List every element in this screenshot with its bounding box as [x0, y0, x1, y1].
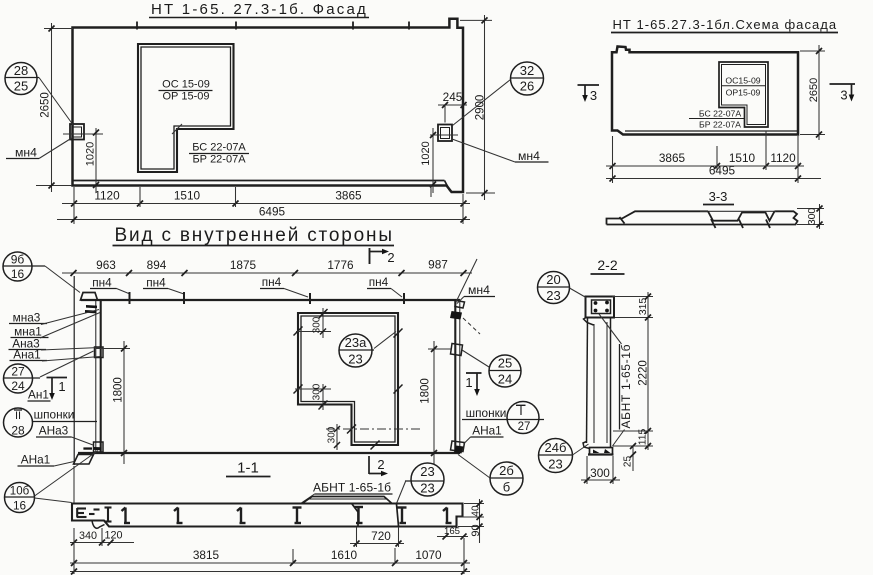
svg-text:Вид с внутренней стороны: Вид с внутренней стороны	[115, 225, 393, 246]
svg-text:2: 2	[377, 457, 384, 472]
inner panel bottom edge	[78, 452, 460, 454]
svg-text:1070: 1070	[415, 548, 442, 562]
svg-text:Ан1: Ан1	[28, 388, 49, 402]
svg-text:300: 300	[807, 208, 818, 226]
svg-text:963: 963	[96, 258, 116, 272]
section mark 3 right	[830, 83, 856, 85]
svg-text:1020: 1020	[85, 142, 97, 166]
svg-text:24: 24	[11, 379, 25, 393]
right edge tab 1	[455, 301, 465, 309]
svg-text:БР 22-07А: БР 22-07А	[699, 120, 741, 130]
inner opening outer	[298, 313, 398, 445]
dim 300 of 3-3	[819, 204, 821, 229]
section mark 3 left	[578, 84, 600, 86]
svg-text:23: 23	[348, 352, 362, 367]
svg-text:1020: 1020	[420, 141, 432, 165]
callout circle 20/23	[538, 272, 570, 304]
svg-text:20: 20	[546, 272, 560, 287]
tick at opening step	[172, 124, 182, 134]
rebar marks	[122, 507, 452, 523]
svg-text:25: 25	[623, 456, 634, 468]
inner panel right edge	[459, 300, 461, 453]
svg-text:3: 3	[840, 88, 847, 103]
svg-text:1800: 1800	[113, 377, 125, 403]
facade opening outer	[138, 44, 234, 172]
svg-text:АНа3: АНа3	[39, 424, 69, 438]
callout circle 9б/16	[3, 252, 32, 281]
right edge tab 4	[451, 441, 465, 452]
inner opening inner	[301, 316, 395, 442]
svg-text:2: 2	[387, 250, 394, 265]
section 1-1 profile	[72, 504, 463, 527]
svg-text:23а: 23а	[345, 335, 367, 350]
svg-text:шпонки: шпонки	[466, 406, 507, 420]
callout circle 27/24	[4, 364, 33, 393]
svg-text:Ана1: Ана1	[13, 348, 41, 362]
svg-text:мн4: мн4	[15, 146, 37, 160]
svg-text:300: 300	[590, 466, 610, 480]
svg-text:23: 23	[420, 481, 434, 496]
bottom-left corner plate	[74, 455, 94, 465]
svg-text:мна3: мна3	[13, 311, 41, 325]
svg-text:2220: 2220	[637, 360, 649, 386]
svg-text:987: 987	[428, 258, 448, 272]
svg-text:23: 23	[420, 464, 434, 479]
svg-text:9б: 9б	[11, 253, 25, 267]
svg-text:1510: 1510	[174, 189, 201, 203]
svg-text:2-2: 2-2	[597, 257, 617, 273]
svg-text:1: 1	[58, 379, 65, 394]
callout circle 28/25	[5, 63, 37, 95]
svg-text:мн4: мн4	[518, 149, 540, 163]
callout circle 10б/16	[5, 483, 35, 513]
dim 40 / 90	[479, 499, 481, 543]
svg-text:24б: 24б	[545, 440, 567, 455]
left middle tab	[95, 347, 104, 358]
dim 2900 right	[484, 15, 486, 200]
svg-text:894: 894	[147, 258, 167, 272]
edge ticks пн	[129, 292, 131, 304]
dim 1800 left	[123, 341, 125, 464]
svg-text:1120: 1120	[94, 189, 120, 203]
svg-text:пн4: пн4	[92, 276, 112, 290]
svg-text:ОС15-09: ОС15-09	[725, 76, 760, 86]
section 3-3 profile	[607, 211, 798, 224]
dim 165	[437, 536, 468, 538]
svg-text:БС 22-07А: БС 22-07А	[699, 109, 742, 119]
top rib box	[586, 297, 615, 318]
bottom rib box	[590, 448, 613, 455]
svg-text:24: 24	[498, 372, 512, 387]
svg-text:300: 300	[312, 383, 323, 400]
facade opening inner	[141, 47, 231, 169]
dim 300 bottom	[336, 424, 338, 450]
opening ticks	[319, 309, 328, 319]
svg-text:6495: 6495	[709, 164, 736, 178]
inner panel left edge	[95, 300, 97, 453]
svg-text:3815: 3815	[193, 548, 220, 562]
svg-text:3-3: 3-3	[709, 189, 728, 204]
ticks on facade top edge	[136, 22, 138, 30]
dim 3815 1610 1070	[70, 562, 470, 564]
svg-text:32: 32	[520, 63, 534, 78]
facade panel outline	[73, 19, 464, 192]
svg-text:1776: 1776	[327, 258, 354, 272]
svg-text:16: 16	[11, 267, 25, 281]
svg-text:40: 40	[471, 505, 482, 517]
svg-text:245: 245	[443, 90, 463, 104]
svg-text:2б: 2б	[499, 463, 514, 478]
dim 340 120	[70, 542, 134, 544]
svg-text:мн4: мн4	[468, 283, 490, 297]
svg-text:шпонки: шпонки	[34, 408, 75, 422]
extension lines	[612, 136, 614, 183]
callout circle II/28	[4, 408, 33, 437]
dim 300 middle	[322, 384, 324, 410]
svg-text:6495: 6495	[259, 205, 286, 219]
dim line 3865 1510 1120	[606, 165, 804, 167]
body edges	[587, 318, 588, 444]
schema opening outer	[719, 62, 768, 127]
svg-text:I: I	[519, 404, 522, 418]
svg-text:БР 22-07А: БР 22-07А	[192, 154, 246, 166]
callout circle 25/24	[489, 355, 521, 387]
svg-text:ОС 15-09: ОС 15-09	[162, 79, 210, 91]
svg-text:1610: 1610	[331, 548, 358, 562]
left bottom tab	[94, 442, 104, 452]
svg-text:АНа1: АНа1	[472, 424, 502, 438]
top-left tab	[81, 293, 98, 301]
svg-text:27: 27	[518, 421, 531, 433]
dim line 1120 1510 3865	[62, 203, 470, 205]
svg-text:АНа1: АНа1	[21, 453, 51, 467]
section mark 2 bottom	[368, 456, 370, 474]
svg-text:1-1: 1-1	[237, 460, 259, 477]
svg-text:1: 1	[465, 375, 472, 390]
dim 300 top	[322, 308, 324, 338]
raised key on top	[302, 497, 392, 504]
svg-text:3: 3	[590, 88, 597, 103]
right edge marker мн4	[438, 125, 452, 142]
svg-text:3865: 3865	[659, 151, 686, 165]
dim 300 bottom	[581, 479, 620, 481]
svg-text:АБНТ 1-65-1б: АБНТ 1-65-1б	[619, 344, 633, 428]
section mark 2 top	[369, 248, 371, 264]
left end anchor detail	[92, 521, 105, 529]
bottom-right corner anchor	[454, 446, 464, 454]
FACADE PART	[5, 1, 549, 224]
top dim line 963 894 1875 1776 987	[62, 272, 472, 274]
callout circle 32/26	[511, 62, 544, 95]
svg-text:10б: 10б	[10, 486, 30, 498]
svg-text:23: 23	[548, 457, 562, 472]
extension lines	[73, 187, 75, 224]
svg-text:16: 16	[13, 499, 27, 513]
svg-text:2650: 2650	[40, 92, 52, 118]
svg-text:ОР15-09: ОР15-09	[726, 88, 761, 98]
svg-text:25: 25	[498, 356, 512, 371]
svg-text:120: 120	[104, 530, 122, 542]
SCHEMA PART	[578, 17, 856, 229]
svg-text:1875: 1875	[230, 258, 257, 272]
callout circle 23а/23	[339, 334, 372, 367]
dim 1800 right	[433, 341, 435, 464]
dim 315 2220 115	[647, 292, 649, 450]
dim 2650 right	[818, 45, 820, 140]
recess lines	[352, 504, 358, 512]
dim 245	[438, 104, 467, 106]
dim 25	[632, 446, 634, 471]
section mark 1 right	[466, 372, 482, 374]
schema bottom flange line	[625, 130, 798, 132]
svg-text:26: 26	[520, 79, 534, 94]
schema panel outline	[612, 47, 798, 135]
dim line 6495	[606, 178, 821, 180]
svg-text:пн4: пн4	[369, 275, 389, 289]
left anchor marks	[86, 305, 97, 308]
extension lines	[73, 528, 75, 574]
left edge marker мн4	[70, 124, 84, 140]
svg-text:2900: 2900	[475, 95, 487, 121]
svg-text:28: 28	[14, 63, 28, 78]
schema opening inner	[722, 65, 766, 125]
left bottom anchor	[83, 447, 92, 449]
svg-text:б: б	[503, 480, 510, 495]
dim 1020 right	[432, 128, 434, 193]
dim 2650 left	[51, 23, 53, 192]
svg-text:пн4: пн4	[146, 276, 166, 290]
SECTION 1-1 PART	[70, 455, 523, 575]
bottom-left lip	[583, 442, 590, 449]
svg-text:2650: 2650	[808, 78, 820, 102]
dim 1020 left	[95, 128, 97, 193]
section mark 1 left	[47, 377, 68, 379]
svg-text:НТ 1-65. 27.3-1б. Фасад: НТ 1-65. 27.3-1б. Фасад	[151, 1, 367, 18]
SECTION 2-2 PART	[538, 257, 654, 484]
facade bottom flange line	[73, 180, 445, 182]
svg-text:90: 90	[470, 524, 482, 536]
svg-text:25: 25	[14, 79, 28, 94]
INNER VIEW PART	[3, 225, 544, 513]
svg-text:1120: 1120	[770, 151, 796, 165]
right edge tab 3	[451, 344, 463, 356]
callout circle 24б/23	[539, 439, 573, 473]
svg-text:720: 720	[371, 529, 391, 543]
right edge anchor 2	[450, 311, 462, 320]
dashed leader	[463, 318, 480, 334]
svg-text:115: 115	[638, 429, 649, 446]
callout circle 2б/б	[490, 462, 523, 495]
svg-text:3865: 3865	[335, 189, 362, 203]
svg-text:315: 315	[638, 298, 649, 316]
svg-text:165: 165	[444, 526, 460, 537]
svg-text:28: 28	[11, 424, 25, 438]
svg-text:НТ 1-65.27.3-1бл.Схема фасада: НТ 1-65.27.3-1бл.Схема фасада	[613, 17, 837, 32]
svg-text:1800: 1800	[420, 378, 432, 404]
bottom total dim line	[70, 571, 470, 573]
svg-text:27: 27	[11, 365, 25, 379]
svg-text:340: 340	[79, 530, 97, 542]
svg-text:23: 23	[546, 288, 560, 303]
dim line 6495	[57, 219, 470, 221]
dim 720	[350, 543, 404, 545]
centerline	[326, 428, 420, 430]
svg-text:БС 22-07А: БС 22-07А	[192, 142, 246, 154]
svg-text:АБНТ 1-65-1б: АБНТ 1-65-1б	[313, 481, 391, 495]
svg-text:300: 300	[312, 316, 323, 333]
svg-text:300: 300	[327, 426, 338, 443]
inner panel top edge	[81, 299, 460, 301]
svg-text:пн4: пн4	[262, 275, 282, 289]
callout circle 23/23	[411, 463, 444, 496]
upper-left lip	[584, 318, 594, 326]
svg-text:II: II	[15, 410, 21, 422]
svg-text:ОР 15-09: ОР 15-09	[162, 91, 209, 103]
